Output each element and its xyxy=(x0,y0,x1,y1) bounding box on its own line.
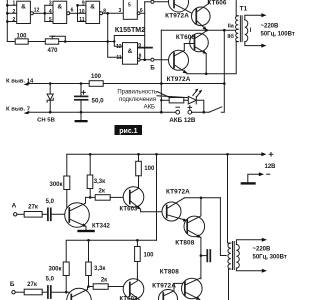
svg-text:100: 100 xyxy=(91,74,102,80)
junction xyxy=(44,12,47,15)
svg-text:АКБ 12В: АКБ 12В xyxy=(169,117,196,124)
svg-text:КТ972А: КТ972А xyxy=(166,189,190,196)
junction capacitor tap xyxy=(200,254,203,257)
wire resistor to LED xyxy=(184,99,189,101)
junction xyxy=(49,111,52,114)
NAND gate DD1.2 xyxy=(53,1,67,23)
resistor 2k (ch B) xyxy=(93,284,108,290)
minus output: ground symbol xyxy=(241,182,256,184)
svg-text:27к: 27к xyxy=(27,282,37,288)
lower channel rail xyxy=(66,240,156,262)
wire pin8 out xyxy=(140,59,151,61)
junction xyxy=(87,239,90,242)
arrowhead xyxy=(261,13,266,17)
wire 27k to cap xyxy=(42,213,47,215)
svg-text:К155ТМ2: К155ТМ2 xyxy=(115,26,145,34)
pointer line to resistor xyxy=(157,92,170,98)
+12V rail xyxy=(67,153,263,155)
junction xyxy=(205,73,208,76)
junction xyxy=(223,29,226,32)
svg-text:100: 100 xyxy=(16,34,27,40)
feedback loop wire DD2.2 xyxy=(114,36,144,47)
svg-text:3: 3 xyxy=(119,8,122,14)
junction xyxy=(160,111,163,114)
wire cap to VT5 base xyxy=(51,213,69,215)
svg-text:IIб: IIб xyxy=(227,33,234,40)
svg-text:4: 4 xyxy=(49,9,52,15)
wire test point to VT1 base xyxy=(154,1,174,3)
battery terminal minus xyxy=(176,110,180,114)
junction on rail xyxy=(6,4,9,7)
svg-text:5: 5 xyxy=(128,2,131,8)
wiper arrow bar xyxy=(50,35,55,37)
resistor 300k (ch B) xyxy=(63,262,69,292)
arrowhead +12V xyxy=(261,152,266,156)
junction xyxy=(160,99,162,101)
ground symbol VT5 emitter xyxy=(77,230,94,232)
junction xyxy=(66,213,69,216)
junction xyxy=(203,111,206,114)
svg-text:2к: 2к xyxy=(99,189,105,195)
arrowhead to pin 14 xyxy=(24,82,30,86)
transistor VT7 KT972A xyxy=(162,198,187,222)
LED VD2 xyxy=(188,89,202,104)
wire gate1 pin 3 xyxy=(7,21,16,23)
wire 2k to VT10 base xyxy=(108,286,130,288)
core T2 xyxy=(233,242,235,270)
resistor 100 (ch A) xyxy=(136,154,142,187)
flip-flop DD2.2 box xyxy=(123,43,138,65)
arrowhead xyxy=(262,269,267,273)
wire rail to T2 primary top xyxy=(228,154,231,243)
minus sign xyxy=(267,173,270,175)
junction xyxy=(64,40,67,43)
svg-text:2к: 2к xyxy=(101,278,107,284)
svg-text:11: 11 xyxy=(79,17,85,23)
common wire (to pin 7) xyxy=(29,111,177,113)
svg-text:I: I xyxy=(250,28,252,34)
wire T2 primary bottom down xyxy=(229,269,231,300)
svg-text:27к: 27к xyxy=(28,204,38,210)
svg-text:Т1: Т1 xyxy=(240,5,248,12)
svg-text:КТ603: КТ603 xyxy=(120,206,139,212)
NAND gate DD1.3 xyxy=(86,1,100,23)
wire gate3 pin 11 xyxy=(78,21,86,23)
svg-text:подключения: подключения xyxy=(119,97,156,103)
transistor VT4 KT606 (lower) xyxy=(190,31,209,74)
wire gate1 out to gate2 xyxy=(33,12,44,14)
svg-text:2: 2 xyxy=(13,9,16,15)
secondary top output wire xyxy=(245,15,263,20)
svg-text:9: 9 xyxy=(82,1,85,7)
svg-text:5: 5 xyxy=(49,17,52,23)
svg-text:50Гц, 300Вт: 50Гц, 300Вт xyxy=(253,255,287,261)
+12V feed wire to transformer centre tap xyxy=(161,29,235,31)
output bubble pin 6 DD2.1 xyxy=(137,12,140,15)
arrowhead xyxy=(262,238,267,242)
svg-text:КТ972А: КТ972А xyxy=(165,13,189,20)
secondary bottom output wire xyxy=(245,42,263,46)
wire VT3 collector to VT4 base xyxy=(184,43,194,45)
+supply wire (to pin 14) xyxy=(29,83,225,85)
svg-text:11: 11 xyxy=(116,55,122,61)
svg-text:12: 12 xyxy=(116,44,122,50)
terminal B xyxy=(12,291,15,294)
wire gate3 out xyxy=(103,12,124,14)
wire gate2 pin 5 xyxy=(45,21,53,23)
secondary top output xyxy=(236,240,263,245)
transistor VT11 KT972A (clipped) xyxy=(159,283,185,300)
plus sign xyxy=(269,153,273,157)
svg-text:300к: 300к xyxy=(49,182,62,188)
junction on rail xyxy=(6,12,9,15)
zener diode VD1 xyxy=(47,84,53,113)
resistor 100 (timing) xyxy=(15,39,28,44)
junction xyxy=(223,82,226,85)
flip-flop DD2.1 box (clipped at top) xyxy=(123,0,137,19)
svg-text:100: 100 xyxy=(144,166,155,172)
wire node to 2k (ch B) xyxy=(89,286,94,288)
capacitor (output stage) xyxy=(201,255,207,257)
T2 primary winding xyxy=(228,243,231,269)
secondary bottom output xyxy=(236,268,263,271)
ground symbol xyxy=(80,112,82,120)
junction xyxy=(49,82,52,85)
svg-text:12В: 12В xyxy=(265,164,277,170)
svg-text:300к: 300к xyxy=(48,267,61,273)
top wire to test point xyxy=(145,1,151,3)
output bubble gate1 xyxy=(30,12,33,15)
emitter bus wire xyxy=(187,42,236,74)
wire A to 27k xyxy=(17,213,24,215)
transistor VT9 KT342 (clipped) xyxy=(67,287,92,300)
svg-text:~220В: ~220В xyxy=(253,247,272,253)
terminal A xyxy=(14,213,17,216)
arrowhead xyxy=(261,44,266,48)
transistor VT8 KT808 xyxy=(184,198,205,279)
supply rail down to AKB xyxy=(160,30,162,112)
transistor VT3 KT972A (lower) xyxy=(169,50,189,73)
wire gate2 pin 3 xyxy=(45,4,53,6)
wire gate3 pin 9 xyxy=(78,4,86,6)
svg-text:&: & xyxy=(90,4,95,11)
svg-text:КТ972А: КТ972А xyxy=(167,76,191,83)
transistor VT12 KT808 (clipped) xyxy=(182,278,203,300)
winding IIb xyxy=(236,29,239,41)
junction collector node B xyxy=(87,285,90,288)
svg-text:5,0: 5,0 xyxy=(46,199,55,205)
capacitor 5,0 (ch A) xyxy=(48,208,51,220)
resistor 2k (ch A) xyxy=(95,195,110,201)
svg-text:470: 470 xyxy=(47,48,58,54)
svg-text:СН 5В: СН 5В xyxy=(37,118,55,124)
transistor VT2 KT606 (upper) xyxy=(192,0,211,30)
junction collector node A xyxy=(89,196,92,199)
minus sign xyxy=(176,106,180,108)
wire B to 27k xyxy=(15,291,24,293)
wire gate1 pin 1 xyxy=(7,4,16,6)
wire 2k to VT6 base xyxy=(110,196,130,198)
resistor 3,3k (ch A) xyxy=(87,154,93,197)
svg-text:50,0: 50,0 xyxy=(92,98,105,105)
junction on rail xyxy=(6,20,9,23)
junction xyxy=(136,239,139,242)
winding IIa xyxy=(236,16,239,30)
capacitor 5,0 (ch B) xyxy=(48,286,51,298)
resistor 300k (ch A) xyxy=(64,154,70,214)
resistor 100 (supply) xyxy=(89,81,103,87)
wire gate2 pin 4 xyxy=(45,12,53,14)
resistor 27k (ch A) xyxy=(24,212,42,218)
left input rail xyxy=(6,0,8,42)
svg-text:3,3к: 3,3к xyxy=(94,266,105,272)
svg-text:&: & xyxy=(57,4,62,11)
junction xyxy=(89,153,92,156)
junction node gate3 out xyxy=(106,12,109,15)
gate2 input bus xyxy=(44,5,46,21)
transistor VT1 KT972A (clipped at top) xyxy=(169,0,196,16)
output bubble pin 8 DD2.2 xyxy=(137,58,140,61)
junction xyxy=(76,4,79,7)
svg-text:1: 1 xyxy=(13,1,16,7)
wire B to VT3 base xyxy=(154,59,174,61)
wire to T2 centre tap xyxy=(220,198,226,256)
svg-text:КТ342: КТ342 xyxy=(92,224,111,230)
svg-text:6: 6 xyxy=(71,8,74,14)
figure label ris.1 xyxy=(115,125,143,135)
test point terminal B xyxy=(151,58,154,61)
svg-text:&: & xyxy=(21,4,26,11)
svg-text:2: 2 xyxy=(13,17,16,23)
gate3 input bus xyxy=(77,5,79,21)
collector wire VT7/VT8 xyxy=(184,197,220,199)
svg-text:КТ808: КТ808 xyxy=(160,268,179,275)
winding I (secondary) xyxy=(245,20,248,42)
wire gate1 pin 2 xyxy=(7,12,16,14)
transistor VT10 KT603 (clipped) xyxy=(123,279,144,300)
junction xyxy=(160,82,163,85)
pot wiper wire xyxy=(52,36,65,41)
battery terminal plus xyxy=(188,110,192,114)
arrowhead to pin 7 xyxy=(24,111,30,115)
svg-text:IIа: IIа xyxy=(228,24,235,30)
vertical bus to base of VT1 xyxy=(144,2,146,60)
svg-text:100: 100 xyxy=(144,253,155,259)
svg-text:50Гц, 100Вт: 50Гц, 100Вт xyxy=(261,32,295,38)
rail from centre tap down to switch xyxy=(221,30,224,112)
wire cap to VT9 base xyxy=(51,291,71,293)
pin 9 stub wire xyxy=(138,47,152,49)
svg-text:КТ808: КТ808 xyxy=(175,239,194,246)
wire gate2 out to gate3 xyxy=(70,12,78,14)
wire gate3 pin 10 xyxy=(78,12,86,14)
indicator feed wire xyxy=(161,99,169,101)
wire LED to bottom rail xyxy=(196,100,204,112)
junction xyxy=(226,153,229,156)
svg-text:А: А xyxy=(12,203,17,210)
output bubble gate2 xyxy=(67,12,70,15)
plus sign xyxy=(188,106,192,110)
wire down from gate3 out to pin 11 of DD2.2 xyxy=(108,13,123,57)
svg-text:КТ606: КТ606 xyxy=(176,34,195,41)
junction xyxy=(137,153,140,156)
potentiometer 470 xyxy=(45,39,58,44)
svg-text:АКБ: АКБ xyxy=(144,104,155,110)
resistor (indicator) xyxy=(169,98,184,103)
wire VT6 emitter to VT7 base xyxy=(141,211,167,213)
junction xyxy=(80,111,83,114)
pointer line to LED xyxy=(157,96,188,98)
svg-text:&: & xyxy=(128,48,133,55)
wire node to 2k xyxy=(90,196,95,198)
capacitor 50,0 xyxy=(75,84,88,113)
svg-text:10: 10 xyxy=(79,9,85,15)
svg-text:рис.1: рис.1 xyxy=(119,128,137,135)
core T1 xyxy=(240,16,242,42)
svg-text:~220В: ~220В xyxy=(261,24,280,30)
junction xyxy=(155,153,158,156)
junction xyxy=(106,40,109,43)
junction xyxy=(65,291,68,294)
resistor 100 (ch B) xyxy=(135,240,141,278)
svg-text:Правильность: Правильность xyxy=(117,89,157,95)
junction xyxy=(143,58,146,61)
junction xyxy=(80,82,83,85)
transistor VT6 KT603 xyxy=(123,187,144,212)
wire plus terminal to switch xyxy=(192,111,210,113)
transistor VT5 KT342 xyxy=(65,197,90,229)
output bubble gate3 xyxy=(100,12,103,15)
junction xyxy=(205,29,208,32)
svg-text:12: 12 xyxy=(34,8,40,14)
svg-text:КТ972А: КТ972А xyxy=(152,282,176,289)
T2 secondary winding xyxy=(236,245,239,269)
arrowhead minus xyxy=(259,172,264,176)
NAND gate DD1.1 xyxy=(17,1,31,23)
junction xyxy=(113,40,115,42)
wire winding IIa top to top edge xyxy=(236,0,238,16)
test point terminal (top) xyxy=(151,0,154,3)
rail drop to lower channel xyxy=(156,154,158,240)
winding IIb bottom jog xyxy=(236,41,238,43)
wire pin6 to vertical xyxy=(140,12,145,14)
svg-text:Б: Б xyxy=(10,281,15,288)
svg-text:3,3к: 3,3к xyxy=(94,179,105,185)
svg-text:КТ603: КТ603 xyxy=(120,297,139,300)
switch SA1 xyxy=(209,107,222,112)
svg-text:КТ606: КТ606 xyxy=(207,0,226,7)
junction xyxy=(200,197,203,200)
svg-text:3: 3 xyxy=(49,1,52,7)
wire timing row xyxy=(7,41,114,43)
wire 27k to cap xyxy=(42,291,47,293)
resistor 3,3k (ch B) xyxy=(86,240,92,286)
resistor 27k (ch B) xyxy=(24,289,42,295)
svg-text:Б: Б xyxy=(150,65,155,71)
svg-text:5,0: 5,0 xyxy=(46,276,55,282)
